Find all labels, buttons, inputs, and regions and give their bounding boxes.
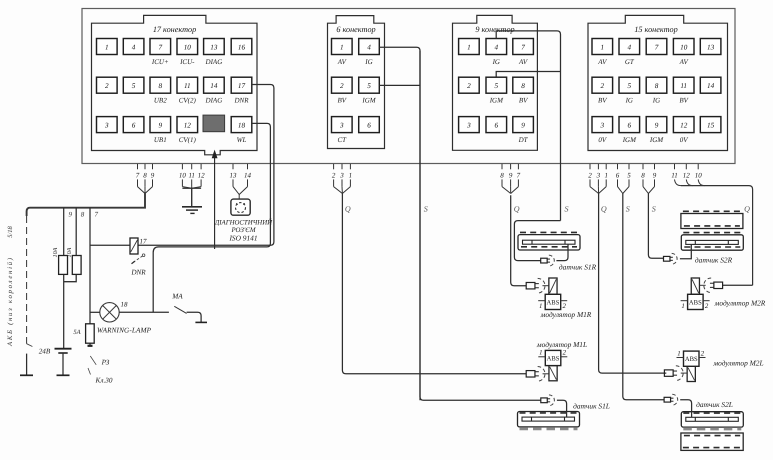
connector 15 pin 8 — [646, 77, 667, 93]
svg-text:7: 7 — [517, 172, 521, 180]
svg-text:AV: AV — [679, 58, 689, 66]
svg-text:модулятор М1L: модулятор М1L — [536, 340, 587, 349]
svg-text:17: 17 — [140, 238, 148, 246]
sensor S2L connector plug — [664, 397, 670, 402]
connector 15 pin 6 — [619, 117, 640, 133]
fuse 5A below lamp on wire 7 — [86, 324, 95, 343]
connector 6 pin 3 — [332, 117, 353, 133]
modulator М2L pin 2 — [699, 356, 706, 358]
modulator М2L pin 1 — [677, 356, 684, 358]
svg-text:6: 6 — [132, 121, 136, 129]
battery feed dashed branch with 5/18 marking — [26, 216, 28, 344]
svg-text:24В: 24В — [39, 348, 51, 356]
svg-text:модулятор М1R: модулятор М1R — [540, 310, 592, 319]
X17 cable pins 13 14 with merge — [232, 164, 234, 169]
wire: X6 Q down to modulator M1L — [342, 194, 526, 374]
exciter ring S2L ring — [681, 433, 743, 450]
svg-text:2: 2 — [105, 82, 109, 90]
svg-text:3: 3 — [339, 172, 344, 180]
sensor S1L tail wire — [557, 400, 567, 417]
sensor S2L core bar — [686, 417, 739, 421]
svg-text:АКБ (низ короленій): АКБ (низ короленій) — [7, 257, 14, 347]
wire: X9 Q down to modulator M1R — [511, 195, 527, 285]
connector 15 pin 12 — [673, 117, 694, 133]
wire: X15 S down to sensor S2R — [648, 194, 663, 259]
svg-text:5: 5 — [495, 82, 499, 90]
svg-text:ABS: ABS — [685, 356, 698, 363]
svg-text:11: 11 — [680, 82, 687, 90]
svg-text:ABS: ABS — [547, 356, 560, 363]
svg-text:AV: AV — [518, 58, 528, 66]
svg-text:UB1: UB1 — [154, 136, 167, 144]
modulator М2R pin 2 — [703, 300, 710, 302]
svg-text:17: 17 — [238, 82, 246, 90]
ground symbol (pins 10 11 12) — [182, 206, 202, 208]
connector 17 pin 10 — [177, 39, 198, 55]
modulator М2R wire valve to socket — [699, 284, 705, 286]
svg-text:10: 10 — [184, 43, 192, 51]
warning lamp 18 — [100, 303, 119, 322]
connector 15 pin 2 — [592, 77, 613, 93]
wire: 13-14 pair to diagnostic connector — [238, 195, 240, 200]
svg-text:модулятор М2L: модулятор М2L — [712, 359, 763, 368]
connector 9 pin 2 — [459, 77, 480, 93]
svg-text:13: 13 — [230, 172, 238, 180]
svg-text:8: 8 — [641, 172, 645, 180]
wire: X6 pin4 right then down (sensor S line) — [380, 47, 421, 400]
modulator М2R ABS box — [688, 294, 704, 309]
connector 17 (17 конектор) body — [92, 15, 258, 154]
arrow from diagnostic connector to shaded pin 15 of X17 — [214, 155, 216, 250]
sensor S2L tail wire — [680, 400, 691, 418]
svg-text:7: 7 — [95, 211, 99, 219]
wire: MA to ground — [187, 312, 202, 322]
svg-text:датчик S1R: датчик S1R — [559, 263, 597, 272]
modulator М1R pin 2 — [561, 300, 568, 302]
svg-text:1: 1 — [539, 350, 542, 357]
svg-text:AV: AV — [337, 58, 347, 66]
svg-text:3: 3 — [466, 121, 471, 129]
connector 15 pin 15 — [700, 117, 721, 133]
svg-text:5: 5 — [627, 172, 631, 180]
svg-text:IGM: IGM — [622, 136, 637, 144]
svg-text:1: 1 — [601, 43, 605, 51]
connector 15 pin 14 — [700, 77, 721, 93]
X6 cable pins 2 3 1 with merge (Q) — [333, 164, 335, 169]
modulator М1R wire valve to socket — [542, 285, 548, 287]
svg-text:9: 9 — [69, 211, 73, 219]
svg-text:ICU+: ICU+ — [151, 58, 169, 66]
svg-text:IG: IG — [652, 97, 660, 105]
svg-text:8: 8 — [143, 172, 147, 180]
svg-text:1: 1 — [677, 350, 680, 357]
svg-text:9: 9 — [653, 172, 657, 180]
svg-text:DIAG: DIAG — [205, 58, 223, 66]
sensor S1R core bar — [523, 240, 576, 244]
modulator М1L ABS box — [545, 350, 561, 365]
svg-text:3: 3 — [339, 121, 344, 129]
svg-text:9: 9 — [159, 121, 163, 129]
svg-text:S: S — [424, 205, 428, 214]
svg-text:IGM: IGM — [649, 136, 664, 144]
svg-text:10А: 10А — [67, 247, 73, 257]
connector 17 pin 7 — [150, 39, 171, 55]
connector 17 pin 2 — [97, 77, 118, 93]
svg-text:16: 16 — [238, 43, 246, 51]
svg-text:13: 13 — [707, 43, 715, 51]
svg-text:1: 1 — [349, 172, 353, 180]
connector 17 pin 1 — [97, 39, 118, 55]
svg-text:9: 9 — [151, 172, 155, 180]
svg-text:ABS: ABS — [547, 299, 560, 306]
svg-text:1: 1 — [467, 43, 471, 51]
modulator М2R pin 1 — [681, 300, 688, 302]
modulator М2L ABS box — [684, 351, 700, 366]
modulator М1L wire valve to socket — [543, 373, 549, 375]
svg-text:МА: МА — [171, 293, 183, 301]
svg-text:10: 10 — [680, 43, 688, 51]
connector 15 pin 11 — [673, 77, 694, 93]
svg-text:Q: Q — [514, 205, 520, 214]
svg-text:ABS: ABS — [689, 299, 702, 306]
svg-text:датчик S1L: датчик S1L — [573, 402, 610, 411]
wire: lamp to MA switch — [119, 311, 169, 313]
connector 17 pin 14 — [204, 77, 225, 93]
svg-text:15 конектор: 15 конектор — [634, 25, 677, 34]
modulator М1L pin 1 — [538, 356, 545, 358]
svg-text:BV: BV — [598, 97, 607, 105]
svg-text:ICU-: ICU- — [179, 58, 195, 66]
wheel speed sensor S2L body — [681, 412, 743, 427]
connector 6 pin 2 — [332, 77, 353, 93]
svg-text:BV: BV — [679, 97, 688, 105]
sensor S1L connector plug — [541, 398, 547, 403]
svg-text:S: S — [652, 205, 656, 214]
svg-text:5: 5 — [367, 82, 371, 90]
connector 15 pin 7 — [646, 39, 667, 55]
svg-text:8: 8 — [81, 211, 85, 219]
svg-text:2: 2 — [562, 303, 566, 310]
svg-text:15: 15 — [707, 121, 715, 129]
svg-text:IGM: IGM — [361, 97, 376, 105]
modulator М1L connector plug — [526, 371, 535, 377]
connector 6 pin 6 — [359, 117, 380, 133]
svg-text:8: 8 — [655, 82, 659, 90]
sensor S2R connector plug — [664, 256, 670, 261]
ground at MA switch — [195, 321, 207, 323]
svg-text:4: 4 — [367, 43, 371, 51]
svg-text:5: 5 — [628, 82, 632, 90]
modulator М2R valve — [691, 278, 699, 294]
supply rail branch wire 8 — [64, 208, 76, 282]
connector 9 pin 6 — [486, 117, 507, 133]
X15 cable pins 8 9 with merge (S) — [642, 164, 644, 169]
svg-text:IG: IG — [364, 58, 372, 66]
supply rail branch wire 9 — [63, 208, 65, 348]
svg-text:ISO 9141: ISO 9141 — [228, 234, 257, 243]
X15 cable pins 2 3 1 with merge (Q) — [589, 164, 591, 169]
svg-text:UB2: UB2 — [154, 97, 167, 105]
svg-text:Q: Q — [345, 205, 351, 214]
svg-text:12: 12 — [683, 172, 691, 180]
X9 cable pins 8 9 7 with merge (Q) — [501, 164, 503, 169]
connector 17 pin 8 — [150, 77, 171, 93]
svg-text:3: 3 — [600, 121, 605, 129]
svg-text:Q: Q — [601, 205, 607, 214]
wire: X17 pin18 right, down, left, down to warning lamp node — [153, 123, 270, 312]
svg-text:12: 12 — [184, 121, 192, 129]
connector 15 pin 5 — [619, 77, 640, 93]
svg-text:4: 4 — [132, 43, 136, 51]
modulator М1R pin 1 — [538, 300, 545, 302]
wire: X17 pin17 right, down, left to DNR breaker — [90, 85, 274, 246]
modulator М2L wire valve to socket — [681, 372, 687, 374]
X17 cable pins 10 11 12 with bus bar — [181, 164, 183, 169]
connector 17 pin 3 — [97, 117, 118, 133]
svg-text:5: 5 — [132, 82, 136, 90]
svg-text:DIAG: DIAG — [205, 97, 223, 105]
svg-text:6: 6 — [367, 121, 371, 129]
svg-text:3: 3 — [596, 172, 601, 180]
svg-text:6: 6 — [628, 121, 632, 129]
connector 9 pin 1 — [459, 39, 480, 55]
ECU control unit boundary box — [82, 9, 735, 164]
svg-text:9: 9 — [655, 121, 659, 129]
svg-text:IGM: IGM — [489, 97, 504, 105]
connector 17 pin 11 — [177, 77, 198, 93]
fuse F2 10A on wire 8 — [72, 256, 81, 275]
svg-text:4: 4 — [628, 43, 632, 51]
svg-text:IG: IG — [625, 97, 633, 105]
svg-text:ДІАГНОСТИЧНИЙ: ДІАГНОСТИЧНИЙ — [214, 219, 273, 227]
sensor S2R tail wire — [680, 244, 691, 259]
battery 24V — [55, 348, 72, 350]
connector 17 pin 12 — [177, 117, 198, 133]
svg-text:7: 7 — [159, 43, 163, 51]
svg-text:12: 12 — [680, 121, 688, 129]
svg-text:DNR: DNR — [130, 269, 146, 277]
wire: X6 S down to sensor S1L — [420, 51, 541, 401]
DNR switch actuator dashes — [133, 256, 142, 262]
wire: X17 7-8-9 cable down and left to supply rail — [27, 194, 145, 217]
svg-text:5/18: 5/18 — [7, 225, 14, 237]
svg-text:8: 8 — [521, 82, 525, 90]
svg-text:6: 6 — [616, 172, 620, 180]
wire: X15 11-12-10 bus to right then down (Q) — [681, 186, 753, 286]
svg-text:9: 9 — [521, 121, 525, 129]
connector 9 (9 конектор) body — [453, 15, 538, 150]
wire 7 end to terminal 30 — [88, 345, 93, 347]
svg-text:3: 3 — [104, 121, 109, 129]
svg-text:8: 8 — [500, 172, 504, 180]
modulator М1L pin 2 — [561, 356, 568, 358]
svg-text:CT: CT — [338, 136, 348, 144]
connector 15 pin 4 — [619, 39, 640, 55]
battery master disconnect switch — [27, 344, 33, 347]
modulator М1L valve — [549, 366, 557, 381]
connector 17 pin 9 — [150, 117, 171, 133]
svg-text:11: 11 — [671, 172, 677, 180]
connector 17 pin 5 — [123, 77, 144, 93]
svg-text:AV: AV — [597, 58, 607, 66]
svg-text:2: 2 — [701, 350, 705, 357]
svg-text:7: 7 — [136, 172, 140, 180]
svg-text:WARNING-LAMP: WARNING-LAMP — [97, 327, 152, 335]
connector 9 pin 3 — [459, 117, 480, 133]
connector 15 (15 конектор) body — [588, 15, 728, 150]
svg-text:2: 2 — [563, 350, 567, 357]
connector 6 pin 4 — [359, 39, 380, 55]
svg-text:14: 14 — [244, 172, 252, 180]
connector 6 (6 конектор) body — [328, 16, 385, 149]
X17 cable pins 7 8 9 with merge — [137, 164, 139, 169]
sensor S1R connector plug — [541, 258, 547, 263]
svg-text:2: 2 — [340, 82, 344, 90]
sensor S2R exciter ring dashes — [683, 232, 741, 234]
svg-text:S: S — [565, 205, 569, 214]
fuse F1 10A on wire 9 — [59, 256, 68, 275]
wire: X9 S wrap around sensor S1R to its plug — [514, 221, 560, 261]
svg-text:7: 7 — [655, 43, 659, 51]
svg-text:2: 2 — [588, 172, 592, 180]
svg-text:1: 1 — [340, 43, 344, 51]
svg-text:8: 8 — [159, 82, 163, 90]
diagnostic connector symbol — [231, 199, 250, 215]
svg-text:9: 9 — [509, 172, 513, 180]
svg-text:5А: 5А — [73, 329, 80, 336]
modulator М2L valve — [687, 366, 695, 381]
svg-text:WL: WL — [237, 136, 247, 144]
wire: X9 pin4 up right then down (sensor S line) — [496, 31, 560, 221]
connector 9 pin 4 — [486, 39, 507, 55]
wheel speed sensor S1L body — [518, 412, 580, 427]
wire: X6 pin5 joins S line — [380, 84, 421, 86]
wire: X15 S down to sensor S2L — [623, 194, 664, 400]
connector 6 pin 1 — [332, 39, 353, 55]
connector 9 pin 9 — [513, 117, 534, 133]
svg-text:S: S — [626, 205, 630, 214]
connector 17 pin 18 — [231, 117, 252, 133]
svg-text:BV: BV — [519, 97, 528, 105]
svg-text:18: 18 — [121, 301, 129, 309]
svg-text:12: 12 — [198, 172, 206, 180]
svg-text:датчик S2R: датчик S2R — [695, 256, 733, 265]
svg-text:10: 10 — [179, 172, 187, 180]
svg-text:9 конектор: 9 конектор — [475, 25, 514, 34]
svg-text:Кл.30: Кл.30 — [95, 377, 113, 385]
connector 15 pin 13 — [700, 39, 721, 55]
sensor S1R exciter ring dashes — [520, 231, 578, 233]
svg-text:BV: BV — [338, 97, 347, 105]
wire: X9 pin5 up and right joins S line — [496, 72, 560, 77]
connector 15 pin 9 — [646, 117, 667, 133]
wheel speed sensor S2R body — [681, 235, 743, 250]
connector 17 pin 4 — [123, 39, 144, 55]
wire: right Q down to modulator M2R — [723, 284, 753, 286]
svg-text:11: 11 — [184, 82, 191, 90]
svg-text:модулятор М2R: модулятор М2R — [714, 299, 766, 308]
svg-text:14: 14 — [707, 82, 715, 90]
connector 6 pin 5 — [359, 77, 380, 93]
connector 17 pin 15 (shaded diagnostic position) — [203, 115, 225, 132]
connector 9 pin 5 — [486, 77, 507, 93]
sensor S1R tail wire — [556, 244, 568, 260]
connector 15 pin 1 — [592, 39, 613, 55]
modulator М2R connector plug — [714, 282, 723, 288]
svg-text:6 конектор: 6 конектор — [336, 25, 375, 34]
wheel speed sensor S1R body — [518, 235, 580, 250]
supply rail branch wire 7 — [89, 208, 91, 346]
svg-text:1: 1 — [681, 303, 684, 310]
leader to РЗ — [90, 356, 96, 365]
svg-text:18: 18 — [238, 121, 246, 129]
svg-text:2: 2 — [332, 172, 336, 180]
sensor S1L core bar — [522, 417, 575, 421]
connector 15 pin 10 — [673, 39, 694, 55]
modulator М1R ABS box — [545, 294, 561, 309]
modulator М2L connector plug — [664, 370, 673, 376]
svg-text:1: 1 — [604, 172, 608, 180]
connector 17 pin 17 — [231, 77, 252, 93]
sensor S1L exciter ring dashes — [520, 412, 578, 414]
svg-text:IG: IG — [492, 58, 500, 66]
wire: rail to lamp — [90, 311, 100, 313]
sensor S2L exciter ring dashes — [683, 412, 741, 414]
X15 cable pins 11 12 10 hooks to right bus (Q) — [674, 164, 676, 169]
sensor S2R core bar — [686, 240, 739, 244]
wire: X15 Q down to modulator M2L — [599, 194, 667, 374]
svg-text:0V: 0V — [680, 136, 689, 144]
connector 17 pin 16 — [231, 39, 252, 55]
exciter ring S2R ring — [681, 214, 743, 229]
svg-text:13: 13 — [210, 43, 218, 51]
modulator М1R connector plug — [526, 282, 535, 288]
svg-text:0V: 0V — [598, 136, 607, 144]
wire: ground stem — [191, 188, 193, 206]
svg-text:CV(1): CV(1) — [179, 136, 197, 144]
modulator М1R valve — [549, 278, 557, 294]
connector 17 pin 6 — [123, 117, 144, 133]
svg-text:6: 6 — [495, 121, 499, 129]
svg-text:GT: GT — [625, 58, 635, 66]
breaker 17 DNR on pin17 wire — [130, 238, 138, 254]
svg-text:14: 14 — [210, 82, 218, 90]
svg-text:DNR: DNR — [234, 97, 250, 105]
svg-text:17 конектор: 17 конектор — [153, 25, 196, 34]
svg-text:CV(2): CV(2) — [179, 97, 197, 105]
switch MA blade — [174, 306, 186, 313]
svg-text:1: 1 — [539, 303, 542, 310]
svg-text:11: 11 — [188, 172, 194, 180]
X15 cable pins 6 5 with merge (S) — [617, 164, 619, 169]
svg-text:2: 2 — [601, 82, 605, 90]
svg-text:4: 4 — [495, 43, 499, 51]
connector 17 pin 13 — [204, 39, 225, 55]
svg-text:2: 2 — [467, 82, 471, 90]
svg-text:Q: Q — [744, 205, 750, 214]
svg-text:1: 1 — [105, 43, 109, 51]
svg-text:7: 7 — [521, 43, 525, 51]
svg-text:10: 10 — [695, 172, 703, 180]
connector 15 pin 3 — [592, 117, 613, 133]
svg-text:2: 2 — [705, 303, 709, 310]
connector 9 pin 8 — [513, 77, 534, 93]
svg-text:10А: 10А — [53, 247, 59, 257]
svg-text:DT: DT — [518, 136, 529, 144]
svg-text:датчик S2L: датчик S2L — [696, 400, 733, 409]
svg-text:РЗ: РЗ — [101, 359, 110, 367]
connector 9 pin 7 — [513, 39, 534, 55]
